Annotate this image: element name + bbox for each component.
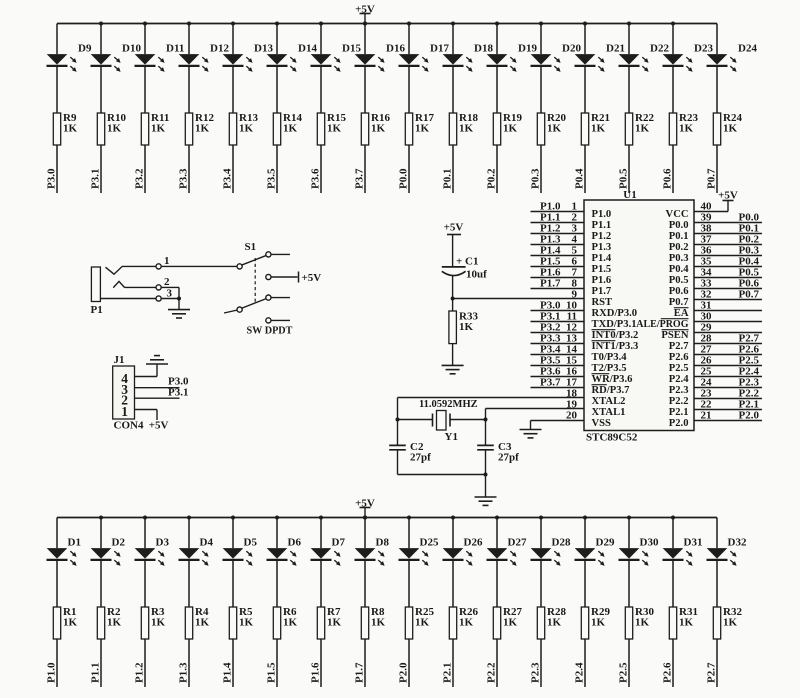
pin number 3: [572, 223, 578, 235]
svg-text:11.0592MHZ: 11.0592MHZ: [419, 399, 478, 410]
label 11.0592MHZ: [419, 399, 478, 410]
svg-text:+5V: +5V: [444, 222, 464, 234]
label R33 1K: [459, 311, 478, 334]
junction: [275, 516, 279, 520]
resistor R23: [669, 113, 676, 145]
label C2 27pf: [410, 441, 431, 464]
net label P0.0: [398, 168, 410, 189]
pin number 38: [701, 223, 713, 235]
pin name P0.5: [669, 275, 689, 286]
pin number 6: [572, 256, 578, 268]
svg-text:P3.6: P3.6: [310, 168, 322, 189]
net label P0.0: [739, 212, 760, 224]
LED D11: [135, 54, 165, 72]
label R4 1K: [195, 606, 210, 629]
switch S1 pole 1 common: [237, 264, 242, 269]
junction: [671, 516, 675, 520]
label R19 1K: [503, 112, 522, 135]
svg-text:P2.3: P2.3: [669, 385, 689, 396]
wire pin 11: [531, 321, 585, 323]
pin number 27: [701, 344, 713, 356]
power +5V: [299, 272, 322, 285]
junction: [319, 516, 323, 520]
svg-text:INT0/P3.2: INT0/P3.2: [592, 330, 639, 341]
net label P3.4: [222, 168, 234, 189]
pin number 12: [566, 322, 578, 334]
wire pin 30: [694, 321, 762, 323]
resistor R25: [405, 607, 412, 639]
wire: [716, 24, 718, 194]
LED D6: [267, 548, 297, 566]
label R3 1K: [151, 606, 166, 629]
svg-text:P3.1: P3.1: [90, 169, 102, 189]
pin number 3: [121, 382, 128, 397]
junction: [275, 22, 279, 26]
junction: [363, 22, 367, 26]
svg-text:S1: S1: [245, 241, 257, 253]
junction: [231, 22, 235, 26]
wire pin 3: [135, 387, 180, 389]
label D27: [508, 537, 527, 549]
svg-text:P2.0: P2.0: [739, 410, 760, 422]
pin number 14: [566, 344, 578, 356]
svg-text:1K: 1K: [503, 617, 518, 629]
net label P2.3: [530, 662, 542, 683]
svg-text:P0.7: P0.7: [706, 168, 718, 189]
junction: [583, 516, 587, 520]
pin number 1: [572, 201, 578, 213]
net label P2.7: [706, 662, 718, 683]
pin number 40: [701, 201, 713, 213]
svg-text:P1.1: P1.1: [90, 663, 102, 683]
svg-text:P2.7: P2.7: [669, 341, 689, 352]
wire: [161, 287, 179, 298]
wire pin 4: [135, 364, 158, 377]
label STC89C52: [586, 432, 638, 444]
label S1: [245, 241, 257, 253]
LED D10: [91, 54, 121, 72]
svg-text:D13: D13: [254, 43, 273, 55]
svg-text:1K: 1K: [239, 123, 254, 135]
svg-text:1K: 1K: [459, 123, 474, 135]
wire pin 40 VCC: [694, 201, 728, 212]
pin number 18: [566, 388, 578, 400]
svg-text:P0.2: P0.2: [669, 242, 689, 253]
pin name P0.3: [669, 253, 689, 264]
net label P3.1: [540, 311, 560, 323]
power +5V: [149, 420, 169, 432]
wire: [364, 518, 366, 688]
LED D1: [47, 548, 77, 566]
wire pin 39: [694, 222, 762, 224]
wire pin 2: [135, 397, 180, 399]
net label P2.0: [398, 662, 410, 683]
svg-text:D5: D5: [244, 537, 258, 549]
svg-text:D29: D29: [596, 537, 615, 549]
pin name P1.5: [592, 264, 612, 275]
wire XTAL1 net: [450, 409, 584, 446]
resistor R9: [53, 113, 60, 145]
junction: [187, 22, 191, 26]
svg-text:1: 1: [121, 404, 128, 419]
wire: [271, 276, 298, 278]
label D4: [200, 537, 214, 549]
resistor R16: [361, 113, 368, 145]
net label P3.3: [178, 168, 190, 189]
svg-text:P0.1: P0.1: [669, 231, 689, 242]
svg-text:1K: 1K: [63, 123, 78, 135]
svg-text:D24: D24: [738, 43, 757, 55]
pin name RST: [592, 297, 613, 308]
label D22: [650, 43, 669, 55]
power +5V: [355, 3, 375, 23]
svg-text:1K: 1K: [195, 617, 210, 629]
svg-text:27pf: 27pf: [410, 452, 431, 464]
svg-text:1K: 1K: [723, 617, 738, 629]
LED D32: [707, 548, 737, 566]
junction: [495, 22, 499, 26]
svg-text:D22: D22: [650, 43, 669, 55]
pin 3 terminal: [156, 296, 161, 301]
net label P0.5: [618, 168, 630, 189]
pin name XTAL1: [592, 407, 626, 418]
svg-text:P1.5: P1.5: [592, 264, 612, 275]
resistor R30: [625, 607, 632, 639]
svg-text:P2.4: P2.4: [669, 374, 689, 385]
label R28 1K: [547, 606, 566, 629]
net label P1.7: [540, 278, 561, 290]
svg-text:2: 2: [164, 276, 170, 288]
pin name P2.7: [669, 341, 689, 352]
wire: [161, 298, 179, 300]
wire: [271, 319, 290, 321]
svg-text:1K: 1K: [371, 617, 386, 629]
svg-text:P3.7: P3.7: [540, 377, 561, 389]
net label P3.7: [540, 377, 561, 389]
wire pin 6: [531, 266, 585, 268]
label R12 1K: [195, 112, 214, 135]
svg-text:P2.1: P2.1: [442, 663, 454, 683]
svg-text:1K: 1K: [547, 123, 562, 135]
svg-text:D6: D6: [288, 537, 302, 549]
net label P0.4: [739, 256, 760, 268]
resistor R7: [317, 607, 324, 639]
label D13: [254, 43, 273, 55]
LED D16: [355, 54, 385, 72]
wire: [56, 518, 58, 688]
wire: [188, 24, 190, 194]
svg-text:+5V: +5V: [149, 420, 169, 432]
svg-text:P1.2: P1.2: [592, 231, 612, 242]
label R7 1K: [327, 606, 342, 629]
ground: [168, 299, 190, 319]
resistor R26: [449, 607, 456, 639]
label R21 1K: [591, 112, 610, 135]
pin number 21: [701, 410, 712, 422]
resistor R32: [713, 607, 720, 639]
pin number 30: [701, 311, 713, 323]
net label P0.6: [662, 168, 674, 189]
wire pin 37: [694, 244, 762, 246]
LED D12: [179, 54, 209, 72]
label R31 1K: [679, 606, 698, 629]
pin number 17: [566, 377, 578, 389]
wire: [584, 518, 586, 688]
pin name P1.6: [592, 275, 612, 286]
pin number 20: [566, 410, 578, 422]
pin number 13: [566, 333, 578, 345]
net label P3.2: [134, 168, 146, 189]
wire: [271, 297, 290, 299]
pin number 22: [701, 399, 713, 411]
pin number 2: [572, 212, 578, 224]
LED D19: [487, 54, 517, 72]
junction: [187, 516, 191, 520]
svg-text:P0.4: P0.4: [574, 168, 586, 189]
wire: [584, 24, 586, 194]
svg-text:P1.3: P1.3: [178, 662, 190, 683]
net label P1.5: [540, 256, 561, 268]
junction: [407, 516, 411, 520]
pin name P2.0: [669, 418, 689, 429]
switch S1 pole 1 lever: [241, 255, 266, 265]
pin 1 terminal: [156, 264, 161, 269]
LED D22: [619, 54, 649, 72]
power +5V: [355, 497, 375, 517]
svg-text:P0.0: P0.0: [669, 220, 689, 231]
label R1 1K: [63, 606, 78, 629]
capacitor C2: [389, 445, 406, 449]
label SW DPDT: [247, 326, 293, 337]
svg-text:1K: 1K: [151, 123, 166, 135]
label R5 1K: [239, 606, 254, 629]
net label P3.3: [540, 333, 561, 345]
junction: [484, 473, 488, 477]
svg-text:P1.7: P1.7: [540, 278, 561, 290]
label D32: [728, 537, 747, 549]
switch S1 pole 2 common: [237, 307, 242, 312]
wire: [485, 450, 487, 497]
LED D20: [531, 54, 561, 72]
svg-text:P0.2: P0.2: [486, 168, 498, 189]
wire: [716, 518, 718, 688]
ground: [442, 365, 464, 373]
LED D2: [91, 548, 121, 566]
junction: [539, 516, 543, 520]
svg-text:P1.4: P1.4: [592, 253, 612, 264]
capacitor C3: [477, 445, 494, 449]
svg-text:1K: 1K: [415, 123, 430, 135]
label D21: [606, 43, 625, 55]
jack ring contact: [113, 281, 156, 287]
wire pin 10: [531, 310, 585, 312]
capacitor C1 (polarized): [442, 267, 466, 276]
svg-text:P1.6: P1.6: [592, 275, 612, 286]
wire: [320, 24, 322, 194]
label D24: [738, 43, 757, 55]
pin number 25: [701, 366, 713, 378]
junction: [319, 22, 323, 26]
label R16 1K: [371, 112, 390, 135]
net label P2.1: [739, 399, 759, 411]
svg-text:T0/P3.4: T0/P3.4: [592, 352, 628, 363]
LED D24: [707, 54, 737, 72]
pin number 2: [121, 393, 128, 408]
svg-text:D1: D1: [68, 537, 81, 549]
svg-text:INT1/P3.3: INT1/P3.3: [592, 341, 639, 352]
label D10: [122, 43, 141, 55]
pin name P0.7: [669, 297, 689, 308]
label D3: [156, 537, 170, 549]
net label P2.6: [662, 662, 674, 683]
pin number 1: [121, 404, 128, 419]
pin number 35: [701, 256, 713, 268]
wire: [144, 518, 146, 688]
resistor R2: [97, 607, 104, 639]
svg-text:D15: D15: [342, 43, 361, 55]
label D7: [332, 537, 346, 549]
svg-text:RST: RST: [592, 297, 613, 308]
svg-text:27pf: 27pf: [498, 452, 519, 464]
label R11 1K: [151, 112, 169, 135]
pin name RXD/P3.0: [592, 308, 638, 319]
crystal Y1: [433, 411, 451, 431]
svg-text:P0.3: P0.3: [530, 168, 542, 189]
svg-text:1K: 1K: [503, 123, 518, 135]
pin number 26: [701, 355, 713, 367]
svg-text:D11: D11: [166, 43, 184, 55]
wire pin 29: [694, 332, 762, 334]
resistor R10: [97, 113, 104, 145]
LED D23: [663, 54, 693, 72]
label D5: [244, 537, 258, 549]
wire pin 33: [694, 288, 762, 290]
net label P3.7: [354, 168, 366, 189]
jack sleeve wire: [100, 298, 156, 300]
wire pin 25: [694, 376, 762, 378]
svg-text:T2/P3.5: T2/P3.5: [592, 363, 627, 374]
net label P1.4: [222, 662, 234, 683]
resistor R24: [713, 113, 720, 145]
wire pin 7: [531, 277, 585, 279]
wire: [100, 24, 102, 194]
svg-text:1: 1: [164, 255, 170, 267]
svg-text:D9: D9: [78, 43, 92, 55]
svg-text:P0.5: P0.5: [618, 168, 630, 189]
svg-text:1K: 1K: [195, 123, 210, 135]
net label P1.0: [46, 662, 58, 683]
label D18: [474, 43, 493, 55]
pin number 33: [701, 278, 713, 290]
net label P1.4: [540, 245, 561, 257]
wire: [452, 24, 454, 194]
pin name P0.1: [669, 231, 689, 242]
label D8: [376, 537, 390, 549]
wire +5V power rail: [57, 23, 717, 25]
label D19: [518, 43, 537, 55]
resistor R8: [361, 607, 368, 639]
svg-text:P0.7: P0.7: [739, 289, 760, 301]
pin name P2.6: [669, 352, 689, 363]
svg-text:P2.6: P2.6: [662, 662, 674, 683]
svg-text:1K: 1K: [591, 123, 606, 135]
pin name P0.4: [669, 264, 689, 275]
LED D15: [311, 54, 341, 72]
LED D4: [179, 548, 209, 566]
ground (inverted): [146, 356, 168, 364]
resistor R6: [273, 607, 280, 639]
label D23: [694, 43, 713, 55]
svg-text:D4: D4: [200, 537, 214, 549]
junction: [451, 516, 455, 520]
svg-text:P2.6: P2.6: [669, 352, 689, 363]
wire pin 13: [531, 343, 585, 345]
svg-text:P2.0: P2.0: [669, 418, 689, 429]
wire: [672, 24, 674, 194]
switch S1 pole 1 throw B: [266, 274, 271, 279]
pin number 37: [701, 234, 713, 246]
label D29: [596, 537, 615, 549]
svg-text:D7: D7: [332, 537, 346, 549]
junction: [451, 22, 455, 26]
svg-text:1K: 1K: [371, 123, 386, 135]
svg-text:D30: D30: [640, 537, 659, 549]
label D1: [68, 537, 81, 549]
label D20: [562, 43, 581, 55]
label D14: [298, 43, 317, 55]
svg-text:P0.6: P0.6: [662, 168, 674, 189]
svg-text:D14: D14: [298, 43, 317, 55]
net label P1.1: [540, 212, 560, 224]
net label P2.4: [574, 662, 586, 683]
svg-text:XTAL1: XTAL1: [592, 407, 626, 418]
wire: [452, 518, 454, 688]
wire pin 5: [531, 255, 585, 257]
wire: [276, 24, 278, 194]
wire: [144, 24, 146, 194]
wire: [452, 276, 454, 299]
label R23 1K: [679, 112, 698, 135]
wire: [540, 24, 542, 194]
svg-text:U1: U1: [623, 189, 636, 201]
wire pin 31: [694, 310, 762, 312]
wire pin 4: [531, 244, 585, 246]
power +5V: [444, 222, 464, 267]
net label P0.6: [739, 278, 760, 290]
pin number 23: [701, 388, 713, 400]
net label P3.5: [266, 168, 278, 189]
svg-text:P0.7: P0.7: [669, 297, 689, 308]
svg-text:D31: D31: [684, 537, 703, 549]
svg-text:1K: 1K: [107, 617, 122, 629]
svg-text:D17: D17: [430, 43, 449, 55]
resistor R18: [449, 113, 456, 145]
junction: [671, 22, 675, 26]
wire pin 14: [531, 354, 585, 356]
label D12: [210, 43, 229, 55]
label Y1: [445, 431, 458, 443]
pin name P2.2: [669, 396, 689, 407]
LED D30: [619, 548, 649, 566]
resistor R31: [669, 607, 676, 639]
net label P2.5: [739, 355, 760, 367]
net label P1.0: [540, 201, 561, 213]
net label P0.7: [706, 168, 718, 189]
pin number 10: [566, 300, 578, 312]
svg-text:P1.7: P1.7: [354, 662, 366, 683]
wire pin 28: [694, 343, 762, 345]
switch S1 pole 2 throw B: [266, 318, 271, 323]
